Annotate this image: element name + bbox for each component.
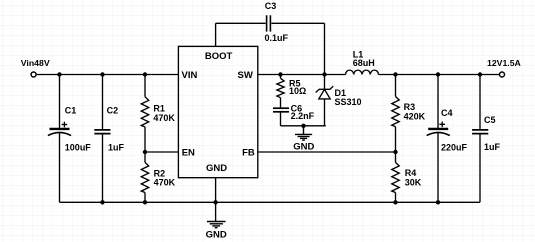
resistor R2 470K: [141, 152, 148, 202]
svg-text:10Ω: 10Ω: [289, 86, 306, 96]
capacitor C3 0.1uF: [267, 15, 325, 74]
wire: snubber ground run: [281, 125, 326, 127]
capacitor C1 100uF: [48, 75, 71, 203]
wire: FB to divider: [258, 151, 396, 153]
node: R3/R4/FB junction: [393, 150, 397, 154]
svg-text:C3: C3: [265, 1, 277, 11]
capacitor C5 1uF: [472, 75, 488, 203]
svg-text:100uF: 100uF: [65, 142, 92, 152]
diode D1 SS310: [316, 75, 334, 126]
node: VIN junction at R1: [143, 72, 147, 76]
output terminal 12V1.5A: [500, 72, 505, 77]
node: ground junction IC GND: [213, 200, 217, 204]
node: ground junction R2: [143, 200, 147, 204]
node: snubber ground junction: [301, 124, 305, 128]
node: R1/R2/EN junction: [143, 150, 147, 154]
svg-text:SS310: SS310: [335, 97, 362, 107]
svg-text:0.1uF: 0.1uF: [265, 33, 289, 43]
capacitor C2 1uF: [94, 75, 110, 203]
wire: ground rail: [60, 201, 480, 203]
svg-text:1uF: 1uF: [484, 142, 501, 152]
node: SW junction at R5: [278, 72, 282, 76]
node: VIN junction at C2: [100, 72, 104, 76]
svg-text:EN: EN: [182, 148, 195, 159]
node: output junction at C5: [478, 72, 482, 76]
svg-text:GND: GND: [206, 163, 227, 174]
svg-text:470K: 470K: [153, 113, 175, 123]
svg-text:Vin48V: Vin48V: [21, 58, 50, 68]
svg-text:R3: R3: [404, 102, 416, 112]
resistor R4 30K: [392, 152, 399, 202]
node: output junction at C4: [436, 72, 440, 76]
svg-text:30K: 30K: [405, 177, 422, 187]
wire: input rail: [37, 74, 179, 76]
svg-text:C1: C1: [65, 105, 77, 115]
svg-text:GND: GND: [206, 229, 227, 240]
input terminal Vin48V: [31, 72, 36, 77]
resistor R3 420K: [392, 75, 399, 153]
svg-text:BOOT: BOOT: [205, 51, 233, 62]
svg-text:470K: 470K: [154, 178, 176, 188]
svg-text:GND: GND: [293, 141, 314, 152]
svg-text:C4: C4: [441, 108, 453, 118]
node: ground junction R4: [393, 200, 397, 204]
node: VIN junction at C1: [57, 72, 61, 76]
ground symbol (main GND): [207, 222, 226, 228]
wire: C3 left: [216, 22, 266, 24]
svg-text:1uF: 1uF: [108, 142, 125, 152]
node: ground junction C2: [100, 200, 104, 204]
svg-text:68uH: 68uH: [353, 58, 375, 68]
svg-text:VIN: VIN: [182, 70, 198, 81]
svg-text:R1: R1: [153, 104, 165, 114]
node: SW junction at D1/C3: [322, 72, 326, 76]
op-amp U1 (buck regulator IC) body: [178, 46, 257, 177]
node: output junction at R3: [393, 72, 397, 76]
resistor R1 470K: [141, 75, 148, 153]
ground symbol (snubber GND): [295, 126, 312, 140]
svg-text:12V1.5A: 12V1.5A: [487, 58, 522, 68]
svg-text:420K: 420K: [404, 112, 426, 122]
node: ground junction C4: [436, 200, 440, 204]
capacitor C4 220uF: [427, 75, 450, 203]
wire: IC GND pin down: [215, 178, 217, 221]
svg-text:C2: C2: [107, 105, 119, 115]
svg-text:C5: C5: [484, 115, 496, 125]
wire: BOOT pin up: [215, 23, 217, 46]
svg-text:SW: SW: [237, 70, 252, 81]
wire: EN to IC: [145, 151, 178, 153]
resistor R5 10 ohm: [277, 75, 284, 108]
svg-text:FB: FB: [242, 148, 255, 159]
wire: SW rail: [258, 74, 346, 76]
wire: output rail: [379, 74, 500, 76]
capacitor C6 2.2nF: [273, 108, 289, 126]
svg-text:2.2nF: 2.2nF: [291, 111, 315, 121]
svg-text:220uF: 220uF: [441, 143, 468, 153]
inductor L1 68uH: [346, 70, 379, 74]
